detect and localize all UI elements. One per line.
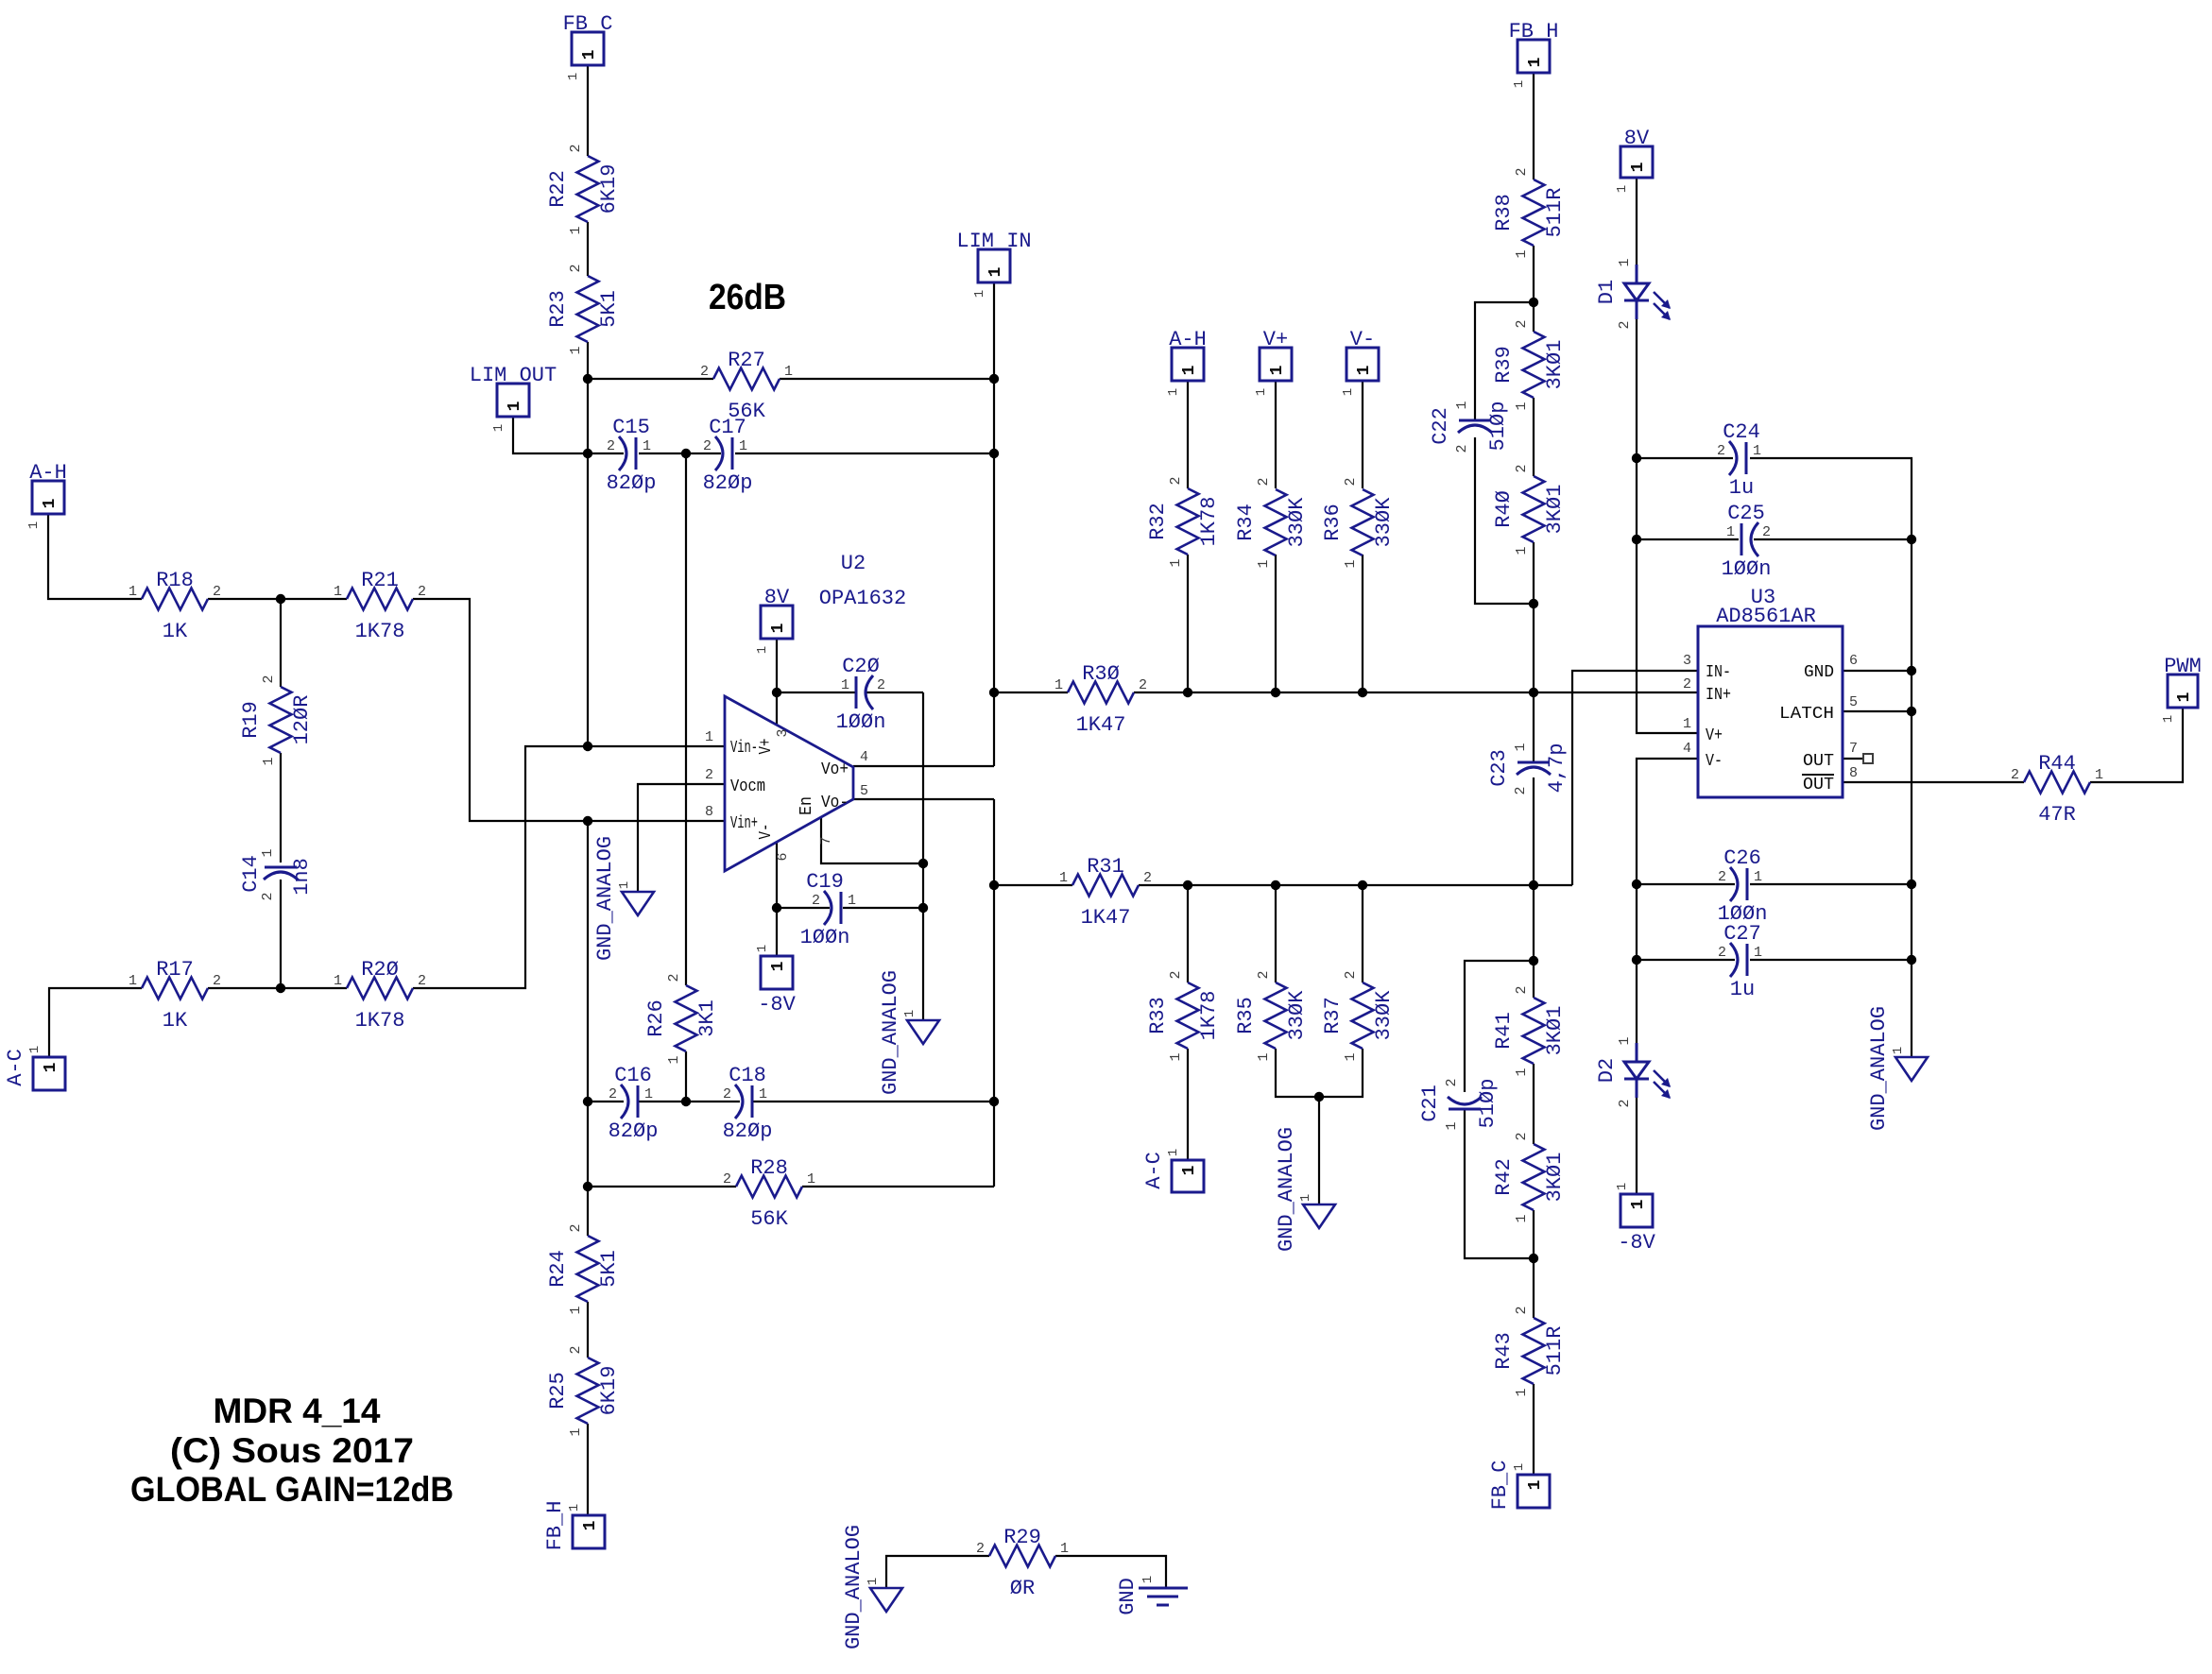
wire 8V to D1	[1636, 178, 1638, 283]
wire LIM_IN rail	[993, 379, 995, 692]
wire Vocm to ground	[638, 784, 725, 892]
svg-text:1: 1	[1343, 559, 1359, 568]
wire C20 left	[777, 692, 855, 693]
svg-text:1: 1	[1254, 388, 1269, 396]
svg-text:2: 2	[1617, 1099, 1633, 1107]
svg-text:1: 1	[755, 646, 770, 654]
svg-text:2: 2	[1762, 524, 1771, 540]
svg-text:26dB: 26dB	[709, 278, 786, 317]
svg-text:GLOBAL GAIN=12dB: GLOBAL GAIN=12dB	[130, 1470, 454, 1509]
svg-text:8V: 8V	[764, 586, 790, 609]
svg-text:R21: R21	[361, 569, 399, 592]
svg-text:1: 1	[334, 584, 342, 600]
resistor R33	[1146, 970, 1221, 1061]
wire V+ to R34	[1275, 381, 1277, 488]
port PWM	[2161, 655, 2202, 723]
resistor R29	[976, 1526, 1069, 1600]
svg-text:2: 2	[703, 438, 712, 454]
wire R43 to FB_C port	[1533, 1384, 1535, 1475]
wire Vo- rail down	[993, 799, 995, 1187]
svg-text:1: 1	[807, 1171, 815, 1187]
svg-text:1: 1	[568, 346, 584, 354]
port V+ right	[1254, 328, 1292, 396]
svg-text:2: 2	[1168, 970, 1184, 979]
svg-text:R42: R42	[1492, 1158, 1516, 1196]
svg-text:R26: R26	[644, 999, 668, 1037]
svg-text:1K78: 1K78	[355, 620, 405, 643]
resistor R19	[239, 675, 314, 765]
svg-text:1: 1	[568, 1306, 584, 1314]
svg-text:1: 1	[1180, 1165, 1199, 1175]
svg-text:R19: R19	[239, 701, 263, 739]
svg-text:LATCH: LATCH	[1779, 705, 1834, 724]
svg-text:1: 1	[1514, 1214, 1530, 1222]
port FB_C top	[563, 12, 613, 80]
wire C27 left	[1637, 959, 1735, 961]
svg-text:1: 1	[1268, 365, 1287, 375]
svg-text:1: 1	[1343, 1052, 1359, 1061]
svg-text:R23: R23	[546, 290, 570, 328]
svg-text:A-H: A-H	[1169, 328, 1207, 351]
svg-text:4,7p: 4,7p	[1545, 743, 1569, 794]
svg-text:GND_ANALOG: GND_ANALOG	[593, 836, 617, 961]
svg-text:4: 4	[1683, 741, 1691, 757]
svg-text:1: 1	[1059, 870, 1068, 886]
svg-text:1: 1	[1629, 162, 1648, 172]
wire R23 to node LIM_OUT rail	[587, 342, 589, 379]
wire U3 /OUT to R44	[1843, 781, 2024, 783]
resistor R24	[546, 1223, 621, 1314]
svg-text:1: 1	[41, 498, 60, 508]
wire A-H to R32	[1187, 381, 1189, 488]
svg-text:1: 1	[260, 848, 276, 857]
svg-text:2: 2	[1514, 464, 1530, 472]
wire U3 GND pin	[1843, 670, 1912, 672]
svg-text:1: 1	[705, 729, 713, 745]
resistor R18	[129, 569, 221, 643]
svg-text:R29: R29	[1003, 1526, 1041, 1549]
wire V- to R36	[1362, 381, 1363, 488]
resistor R32	[1146, 476, 1221, 567]
wire R44 to PWM port	[2090, 708, 2183, 782]
port A-C right	[1142, 1149, 1204, 1192]
ground GND_ANALOG opamp	[879, 970, 939, 1095]
svg-text:V-: V-	[1350, 328, 1375, 351]
wire analog ground rail	[922, 692, 924, 1020]
ground GND_ANALOG Vocm	[593, 836, 654, 961]
wire node to R43	[1533, 1258, 1535, 1318]
svg-text:1: 1	[1514, 401, 1530, 410]
svg-text:2: 2	[666, 973, 682, 982]
svg-text:1: 1	[769, 623, 788, 633]
port FB_H top right	[1509, 20, 1559, 88]
LED D1	[1595, 258, 1671, 329]
svg-text:C24: C24	[1723, 420, 1760, 444]
svg-text:1K78: 1K78	[1197, 991, 1221, 1041]
svg-text:V+: V+	[757, 739, 776, 755]
svg-text:R31: R31	[1087, 855, 1124, 879]
svg-text:R28: R28	[750, 1156, 788, 1180]
svg-text:1: 1	[1615, 185, 1630, 193]
wire C26 left	[1637, 883, 1735, 885]
svg-text:1: 1	[1168, 558, 1184, 567]
svg-text:2: 2	[418, 973, 426, 989]
svg-text:1: 1	[1629, 1199, 1648, 1209]
svg-text:2: 2	[723, 1086, 731, 1102]
resistor R36	[1321, 477, 1396, 568]
svg-text:OUT: OUT	[1803, 776, 1834, 794]
wire R39 to R40	[1533, 398, 1535, 476]
resistor R37	[1321, 970, 1396, 1061]
svg-text:2: 2	[1514, 319, 1530, 328]
svg-text:1: 1	[1726, 524, 1735, 540]
wire R17 to node	[208, 987, 281, 989]
svg-text:6K19: 6K19	[597, 1366, 621, 1416]
svg-text:FB_H: FB_H	[543, 1501, 567, 1551]
svg-text:51Øp: 51Øp	[1486, 401, 1510, 452]
wire C22 bottom bracket	[1475, 437, 1534, 604]
svg-text:2: 2	[1514, 1132, 1530, 1140]
port LIM_OUT	[470, 364, 557, 432]
svg-text:C19: C19	[806, 870, 844, 894]
svg-text:1: 1	[769, 961, 788, 971]
svg-text:1: 1	[739, 438, 747, 454]
svg-text:1: 1	[581, 1520, 600, 1530]
svg-text:2: 2	[1256, 477, 1272, 486]
svg-text:1: 1	[1341, 388, 1356, 396]
svg-text:R27: R27	[728, 349, 765, 372]
ground GND_ANALOG right	[1867, 1006, 1928, 1131]
svg-text:1: 1	[580, 49, 599, 60]
svg-text:LIM_OUT: LIM_OUT	[470, 364, 557, 387]
capacitor C17	[703, 416, 753, 495]
wire U3 OUT pin stub	[1843, 758, 1862, 760]
wire R21 to Vin+	[413, 599, 725, 821]
wire node to R20	[281, 987, 347, 989]
svg-text:82Øp: 82Øp	[607, 471, 657, 495]
wire join to ground	[1318, 1097, 1320, 1204]
wire R24 to R25	[587, 1302, 589, 1358]
svg-text:1: 1	[644, 1086, 653, 1102]
svg-text:7: 7	[1849, 741, 1858, 757]
svg-text:2: 2	[1256, 970, 1272, 979]
svg-text:3KØ1: 3KØ1	[1543, 485, 1567, 535]
svg-text:1: 1	[129, 973, 137, 989]
svg-text:V-: V-	[1706, 752, 1723, 771]
svg-text:1K78: 1K78	[355, 1009, 405, 1033]
wire C15/C17 node down to R26	[685, 453, 687, 985]
svg-text:8V: 8V	[1624, 127, 1650, 150]
svg-text:2: 2	[568, 264, 584, 272]
comparator U3 AD8561AR	[1698, 586, 1843, 797]
wire R27 right to LIM_IN rail	[780, 378, 994, 380]
svg-text:1ØØn: 1ØØn	[1722, 557, 1772, 581]
port -8V opamp	[755, 945, 797, 1016]
svg-text:1: 1	[1166, 388, 1181, 396]
svg-text:D1: D1	[1595, 280, 1619, 304]
capacitor C24	[1717, 420, 1761, 500]
svg-text:V+: V+	[1263, 328, 1288, 351]
svg-text:1: 1	[261, 757, 277, 765]
svg-text:V+: V+	[1706, 726, 1723, 745]
wire C22 top bracket	[1475, 302, 1534, 420]
svg-text:1: 1	[1754, 945, 1762, 961]
svg-text:OUT: OUT	[1803, 752, 1834, 771]
wire lower feedback rail	[587, 821, 589, 1102]
svg-text:R37: R37	[1321, 997, 1345, 1034]
svg-text:PWM: PWM	[2164, 655, 2202, 678]
svg-text:R24: R24	[546, 1250, 570, 1288]
wire C25 right	[1754, 538, 1912, 540]
svg-text:3KØ1: 3KØ1	[1543, 1153, 1567, 1203]
svg-text:(C) Sous 2017: (C) Sous 2017	[170, 1431, 414, 1470]
svg-text:3: 3	[775, 728, 791, 737]
svg-text:33ØK: 33ØK	[1285, 497, 1309, 548]
svg-text:1: 1	[42, 1062, 60, 1072]
svg-text:3KØ1: 3KØ1	[1543, 340, 1567, 390]
svg-text:1: 1	[1256, 1052, 1272, 1061]
resistor R42	[1492, 1132, 1567, 1222]
svg-text:GND_ANALOG: GND_ANALOG	[1275, 1127, 1298, 1252]
svg-text:1: 1	[1891, 1047, 1906, 1054]
wire LIM_IN port down	[993, 282, 995, 379]
wire rail to R24	[587, 1187, 589, 1236]
resistor R23	[546, 264, 621, 354]
svg-text:IN-: IN-	[1706, 663, 1731, 682]
resistor R44	[2011, 752, 2103, 827]
svg-text:1: 1	[1444, 1121, 1460, 1130]
svg-text:56K: 56K	[750, 1207, 788, 1231]
port A-H right	[1166, 328, 1207, 396]
wire R28 right	[802, 1186, 994, 1187]
svg-text:1: 1	[1355, 365, 1374, 375]
wire R32 to rail	[1187, 555, 1189, 692]
wire R22 to R23	[587, 222, 589, 276]
svg-text:R43: R43	[1492, 1332, 1516, 1370]
svg-text:C17: C17	[709, 416, 746, 439]
resistor R25	[546, 1345, 621, 1436]
wire C24 left	[1637, 457, 1733, 459]
svg-text:1: 1	[566, 73, 581, 80]
resistor R22	[546, 144, 621, 234]
svg-text:R39: R39	[1492, 346, 1516, 384]
svg-text:1: 1	[1514, 1388, 1530, 1396]
svg-text:R38: R38	[1492, 194, 1516, 231]
svg-text:2: 2	[1718, 945, 1726, 961]
wire A-C port to R17	[49, 988, 142, 1057]
svg-text:2: 2	[260, 892, 276, 900]
wire node to rail	[1533, 604, 1535, 692]
wire D2 to -8V port	[1636, 1079, 1638, 1194]
svg-text:5K1: 5K1	[597, 1250, 621, 1288]
svg-text:6: 6	[1849, 653, 1858, 669]
resistor R31	[1059, 855, 1152, 930]
svg-text:6: 6	[775, 852, 791, 861]
svg-text:1K47: 1K47	[1076, 713, 1126, 737]
svg-text:2: 2	[1617, 320, 1633, 329]
capacitor C19	[800, 870, 856, 949]
svg-text:2: 2	[1343, 970, 1359, 979]
capacitor C15	[607, 416, 657, 495]
wire node to C15 row	[587, 379, 589, 453]
wire C17 right	[735, 453, 994, 454]
svg-text:1: 1	[568, 1427, 584, 1436]
svg-text:V-: V-	[757, 824, 776, 840]
svg-text:2: 2	[976, 1541, 985, 1557]
svg-text:8: 8	[1849, 765, 1858, 781]
svg-text:2: 2	[1717, 443, 1725, 459]
wire D1 to C24	[1636, 302, 1638, 458]
wire V- pin to -8V	[776, 842, 778, 956]
svg-text:2: 2	[609, 1086, 617, 1102]
wire upper feedback rail to Vin-	[587, 453, 589, 746]
port FB_H bottom	[543, 1501, 605, 1551]
wire node to R39	[1533, 302, 1535, 332]
svg-text:R2Ø: R2Ø	[361, 958, 399, 982]
wire C21 bottom bracket	[1465, 1109, 1534, 1258]
svg-text:2: 2	[418, 584, 426, 600]
svg-text:R18: R18	[156, 569, 194, 592]
svg-text:C27: C27	[1723, 922, 1761, 946]
svg-text:OPA1632: OPA1632	[819, 587, 906, 610]
svg-text:MDR 4_14: MDR 4_14	[214, 1392, 381, 1430]
wire LIM_IN rail to Vo+	[993, 692, 995, 766]
svg-text:511R: 511R	[1543, 1326, 1567, 1376]
wire C16 to C18	[639, 1101, 740, 1102]
resistor R34	[1234, 477, 1309, 568]
wire rail to R35	[1275, 885, 1277, 982]
svg-text:R34: R34	[1234, 504, 1258, 541]
svg-text:R32: R32	[1146, 503, 1170, 540]
svg-text:3KØ1: 3KØ1	[1543, 1006, 1567, 1056]
svg-text:C15: C15	[612, 416, 650, 439]
svg-text:2: 2	[568, 1223, 584, 1232]
wire GND_ANALOG to R29	[886, 1556, 989, 1588]
annotation title block	[130, 1392, 454, 1509]
svg-text:3: 3	[1683, 653, 1691, 669]
svg-text:FB_C: FB_C	[1488, 1460, 1512, 1511]
wire R29 to GND	[1055, 1556, 1166, 1588]
wire R19 to C14	[280, 753, 282, 863]
svg-text:1: 1	[1753, 443, 1761, 459]
svg-text:En: En	[797, 796, 816, 815]
svg-text:1: 1	[1526, 1479, 1545, 1490]
svg-text:C26: C26	[1723, 846, 1761, 870]
svg-text:C21: C21	[1418, 1085, 1442, 1122]
wire C20 right	[866, 692, 923, 693]
svg-text:2: 2	[213, 584, 221, 600]
port LIM_IN	[956, 230, 1031, 298]
resistor R30	[1055, 662, 1147, 737]
wire to U3 IN-	[1572, 671, 1698, 885]
wire C21 top bracket	[1465, 961, 1534, 1092]
svg-text:AD8561AR: AD8561AR	[1716, 605, 1816, 628]
capacitor C23	[1487, 743, 1569, 794]
svg-text:2: 2	[1143, 870, 1152, 886]
port -8V right	[1615, 1183, 1656, 1255]
svg-text:1: 1	[1140, 1576, 1156, 1583]
resistor R28	[723, 1156, 815, 1231]
svg-text:47R: 47R	[2038, 803, 2076, 827]
port A-C left	[4, 1046, 65, 1090]
port A-H left	[26, 461, 67, 529]
wire supply rail to U3 V+	[1637, 458, 1698, 733]
svg-text:C14: C14	[239, 855, 263, 893]
svg-text:2: 2	[261, 675, 277, 683]
svg-text:FB_C: FB_C	[563, 12, 613, 36]
wire rail to C23	[1533, 692, 1535, 762]
wire C19 right	[843, 907, 923, 909]
svg-text:R3Ø: R3Ø	[1082, 662, 1120, 686]
wire rail C16 to R28 row	[587, 1102, 589, 1187]
svg-text:1: 1	[1166, 1149, 1181, 1156]
svg-text:7: 7	[818, 836, 834, 845]
wire R36 to rail	[1362, 555, 1363, 692]
ground GND_ANALOG R29	[842, 1525, 902, 1649]
wire right ground rail	[1911, 539, 1912, 1057]
wire FB_C to R22	[587, 65, 589, 156]
svg-text:FB_H: FB_H	[1509, 20, 1559, 43]
svg-text:1: 1	[1512, 80, 1527, 88]
svg-text:GND: GND	[1116, 1578, 1140, 1615]
svg-text:1: 1	[26, 521, 42, 529]
svg-text:ØR: ØR	[1010, 1577, 1035, 1600]
wire R34 to rail	[1275, 555, 1277, 692]
resistor R43	[1492, 1306, 1567, 1396]
svg-text:1: 1	[1298, 1194, 1313, 1202]
wire 8V to V+ pin	[776, 638, 778, 725]
wire C26 right	[1750, 883, 1912, 885]
svg-text:1: 1	[129, 584, 137, 600]
wire U3 V- to negative rail	[1637, 759, 1698, 1062]
svg-text:1: 1	[902, 1010, 917, 1017]
svg-text:R4Ø: R4Ø	[1492, 490, 1516, 528]
svg-text:2: 2	[2011, 767, 2019, 783]
wire R26 to C16/C18 row	[685, 1051, 687, 1102]
resistor R26	[644, 973, 719, 1064]
port 8V opamp	[755, 586, 793, 654]
wire R33 to A-C port	[1187, 1049, 1189, 1160]
svg-text:1: 1	[848, 893, 856, 909]
wire R20 to Vin-	[413, 746, 725, 988]
wire R40 to node	[1533, 542, 1535, 604]
svg-text:1: 1	[1617, 258, 1633, 266]
U2 pin names	[730, 739, 849, 840]
svg-text:2: 2	[213, 973, 221, 989]
svg-text:1: 1	[1683, 716, 1691, 732]
svg-text:2: 2	[812, 893, 820, 909]
svg-text:3K1: 3K1	[695, 999, 719, 1037]
svg-text:R22: R22	[546, 170, 570, 208]
svg-text:GND_ANALOG: GND_ANALOG	[1867, 1006, 1891, 1131]
svg-text:C2Ø: C2Ø	[842, 655, 880, 678]
resistor R20	[334, 958, 426, 1033]
svg-text:1: 1	[1617, 1036, 1633, 1045]
svg-text:1: 1	[568, 226, 584, 234]
svg-text:1: 1	[972, 290, 987, 298]
svg-text:C25: C25	[1727, 502, 1765, 525]
svg-text:2: 2	[700, 364, 709, 380]
svg-text:1n8: 1n8	[290, 858, 314, 896]
svg-text:Vin-: Vin-	[730, 739, 758, 758]
wire C18 right	[753, 1101, 994, 1102]
svg-text:1: 1	[1514, 249, 1530, 258]
svg-text:33ØK: 33ØK	[1372, 497, 1396, 548]
capacitor C21	[1418, 1078, 1500, 1130]
svg-text:2: 2	[1139, 677, 1147, 693]
svg-text:1K78: 1K78	[1197, 497, 1221, 547]
svg-text:C23: C23	[1487, 749, 1511, 787]
